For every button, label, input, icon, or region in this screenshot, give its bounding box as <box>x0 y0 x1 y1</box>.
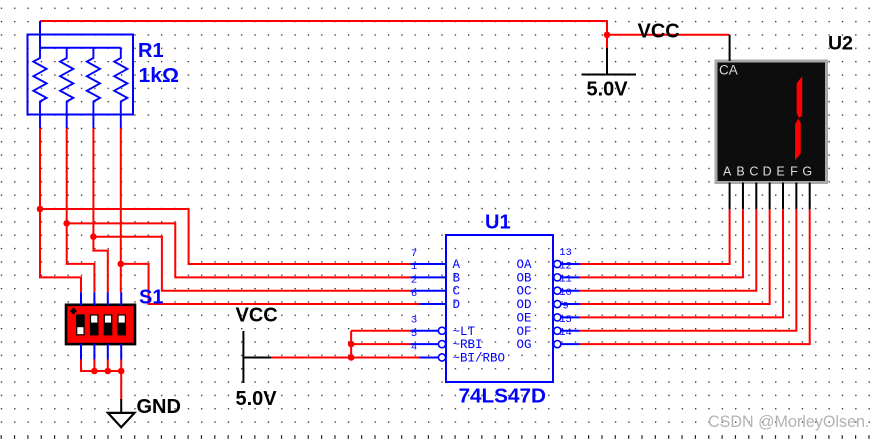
switch S1 slider 4 <box>117 314 126 335</box>
svg-text:CA: CA <box>719 63 738 78</box>
svg-text:B: B <box>736 165 744 179</box>
switch S1 top pin 1 <box>80 292 82 305</box>
wire OG to display G <box>580 209 810 344</box>
switch S1 top pin 4 <box>120 292 122 305</box>
resistor R1 box <box>28 35 134 115</box>
svg-text:C: C <box>453 285 461 299</box>
svg-text:3: 3 <box>411 315 417 327</box>
svg-text:D: D <box>763 165 772 179</box>
wire column1 drop to S1 pin1 <box>40 128 81 292</box>
svg-text:OC: OC <box>517 285 532 299</box>
U1 input stub A <box>411 263 447 265</box>
svg-text:GND: GND <box>137 396 181 418</box>
display U2 pin CA <box>729 35 731 61</box>
switch S1 slider 2 <box>90 314 99 335</box>
svg-text:OF: OF <box>517 325 532 339</box>
svg-text:4: 4 <box>411 341 417 353</box>
sheet bottom boundary ticks <box>1 435 870 439</box>
junction VCC top <box>604 32 611 39</box>
wire VCC top horizontal <box>40 20 607 22</box>
svg-text:2: 2 <box>411 275 417 287</box>
wire VCC to display CA <box>607 34 730 36</box>
U1 input stub B <box>411 276 447 278</box>
junction node4 <box>118 261 125 268</box>
svg-text:7: 7 <box>411 248 417 260</box>
wire column2 drop to S1 pin2 <box>67 128 95 292</box>
svg-text:1kΩ: 1kΩ <box>139 65 180 87</box>
wire OD to display D <box>580 209 770 304</box>
display U2 pin C <box>755 183 757 210</box>
wire VCC2 to U1 ~BI/RBO <box>271 356 420 358</box>
U1 input stub ~BI <box>420 356 439 358</box>
wire node3 to U1 pin C <box>93 237 410 291</box>
U1 output stub OF <box>561 330 580 332</box>
svg-text:A: A <box>453 258 461 272</box>
svg-text:5.0V: 5.0V <box>236 388 278 410</box>
svg-text:15: 15 <box>559 314 572 326</box>
svg-text:VCC: VCC <box>638 21 680 43</box>
wire node2 to U1 pin B <box>67 223 411 277</box>
U1 output stub OG <box>561 343 580 345</box>
switch S1 bottom pin 2 <box>93 344 95 360</box>
wire to U1 ~LT <box>351 330 410 332</box>
display U2 pin B <box>742 183 744 210</box>
svg-text:U2: U2 <box>828 33 853 55</box>
svg-text:F: F <box>790 165 798 179</box>
U1 input stub ~RBI <box>411 343 439 345</box>
wire R1 common bus <box>40 47 121 49</box>
wire to U1 ~RBI <box>351 343 410 345</box>
ground <box>120 399 122 413</box>
U1 output stub OC <box>561 290 580 292</box>
svg-text:S1: S1 <box>139 287 163 309</box>
svg-text:6: 6 <box>411 288 417 300</box>
display U2 pin D <box>769 183 771 210</box>
switch S1 bottom pin 4 <box>120 344 122 360</box>
display U2 body <box>716 61 827 183</box>
resistor R1 element 2 <box>60 48 73 128</box>
resistor R1 element 3 <box>87 48 100 128</box>
junction ground bus 3 <box>118 368 125 375</box>
svg-text:13: 13 <box>559 247 572 259</box>
svg-text:R1: R1 <box>138 40 164 62</box>
U1 output stub OA <box>561 263 580 265</box>
svg-text:B: B <box>453 271 461 285</box>
display U2 pin E <box>782 183 784 210</box>
resistor R1 element 1 <box>33 48 46 128</box>
switch S1 slider 3 <box>104 314 113 335</box>
wire column3 drop to S1 pin3 <box>93 128 107 292</box>
wire OC to display C <box>580 209 757 290</box>
svg-text:~LT: ~LT <box>453 325 476 339</box>
display U2 pin A <box>729 183 731 210</box>
display U2 segment B lit <box>797 76 803 118</box>
display U2 segment C lit <box>795 119 801 161</box>
wire S1 bottom pin 6 drop <box>93 360 95 372</box>
wire ground bus to GND <box>120 371 122 400</box>
display U2 pin F <box>795 183 797 210</box>
switch S1 bottom pin 3 <box>107 344 109 360</box>
wire OA to display A <box>580 209 730 264</box>
svg-text:G: G <box>802 165 812 179</box>
power VCC 5.0V symbol left <box>243 356 271 358</box>
svg-text:74LS47D: 74LS47D <box>459 386 547 408</box>
svg-text:~RBI: ~RBI <box>453 338 483 352</box>
U1 output stub OE <box>561 316 580 318</box>
wire S1 bottom pin 7 drop <box>107 360 109 372</box>
wire column4 drop to S1 pin4 <box>120 128 122 292</box>
svg-text:~BI/RBO: ~BI/RBO <box>453 351 506 365</box>
svg-text:U1: U1 <box>485 212 511 234</box>
svg-text:OE: OE <box>517 311 532 325</box>
switch S1 pin1 mark <box>70 307 77 314</box>
wire node4 to U1 pin D <box>121 264 420 304</box>
junction node3 <box>90 233 97 240</box>
wire VCC drop at x607 <box>606 20 608 48</box>
svg-text:5: 5 <box>411 328 417 340</box>
svg-text:11: 11 <box>559 274 572 286</box>
power VCC U2 supply 5.0V symbol <box>606 48 608 75</box>
U1 output stub OB <box>561 276 580 278</box>
switch S1 body <box>66 305 135 344</box>
U1 input stub C <box>411 290 447 292</box>
switch S1 top pin 2 <box>93 292 95 305</box>
display U2 pin G <box>809 183 811 210</box>
svg-text:1: 1 <box>411 261 417 273</box>
svg-text:C: C <box>749 165 758 179</box>
svg-text:OD: OD <box>517 298 532 312</box>
svg-text:CSDN @MorleyOlsen.: CSDN @MorleyOlsen. <box>708 413 870 431</box>
switch S1 bottom pin 1 <box>80 344 82 360</box>
svg-text:VCC: VCC <box>236 305 278 327</box>
svg-text:D: D <box>453 298 461 312</box>
U1 input stub ~LT <box>411 330 439 332</box>
svg-text:5.0V: 5.0V <box>587 79 629 101</box>
wire VCC2 riser <box>350 331 352 358</box>
wire S1 pin5 to ground bus <box>81 360 121 372</box>
wire OF to display F <box>580 209 797 330</box>
svg-text:9: 9 <box>562 300 568 312</box>
junction VCC2 corner <box>348 354 355 361</box>
junction ground bus 2 <box>105 368 112 375</box>
svg-text:14: 14 <box>559 327 572 339</box>
junction node1 <box>37 206 44 213</box>
svg-text:10: 10 <box>559 287 572 299</box>
svg-text:A: A <box>723 165 732 179</box>
junction node2 <box>63 220 70 227</box>
junction ground bus 1 <box>91 368 98 375</box>
svg-text:OG: OG <box>517 338 532 352</box>
junction VCC2 RBI tap <box>348 341 355 348</box>
svg-text:OA: OA <box>517 258 533 272</box>
wire S1 bottom pin 8 drop <box>120 360 122 372</box>
resistor R1 element 4 <box>114 48 127 128</box>
switch S1 slider 1 <box>76 314 85 335</box>
U1 output stub OD <box>561 303 580 305</box>
svg-text:12: 12 <box>559 260 572 272</box>
wire R1 top lead <box>39 21 41 48</box>
svg-text:OB: OB <box>517 271 533 285</box>
switch S1 top pin 3 <box>107 292 109 305</box>
wire OE to display E <box>580 209 784 317</box>
wire node1 to U1 pin A <box>40 209 411 264</box>
op-amp U1 74LS47D box <box>446 235 553 382</box>
wire OB to display B <box>580 209 743 277</box>
svg-text:E: E <box>776 165 784 179</box>
U1 input stub D <box>420 303 447 305</box>
